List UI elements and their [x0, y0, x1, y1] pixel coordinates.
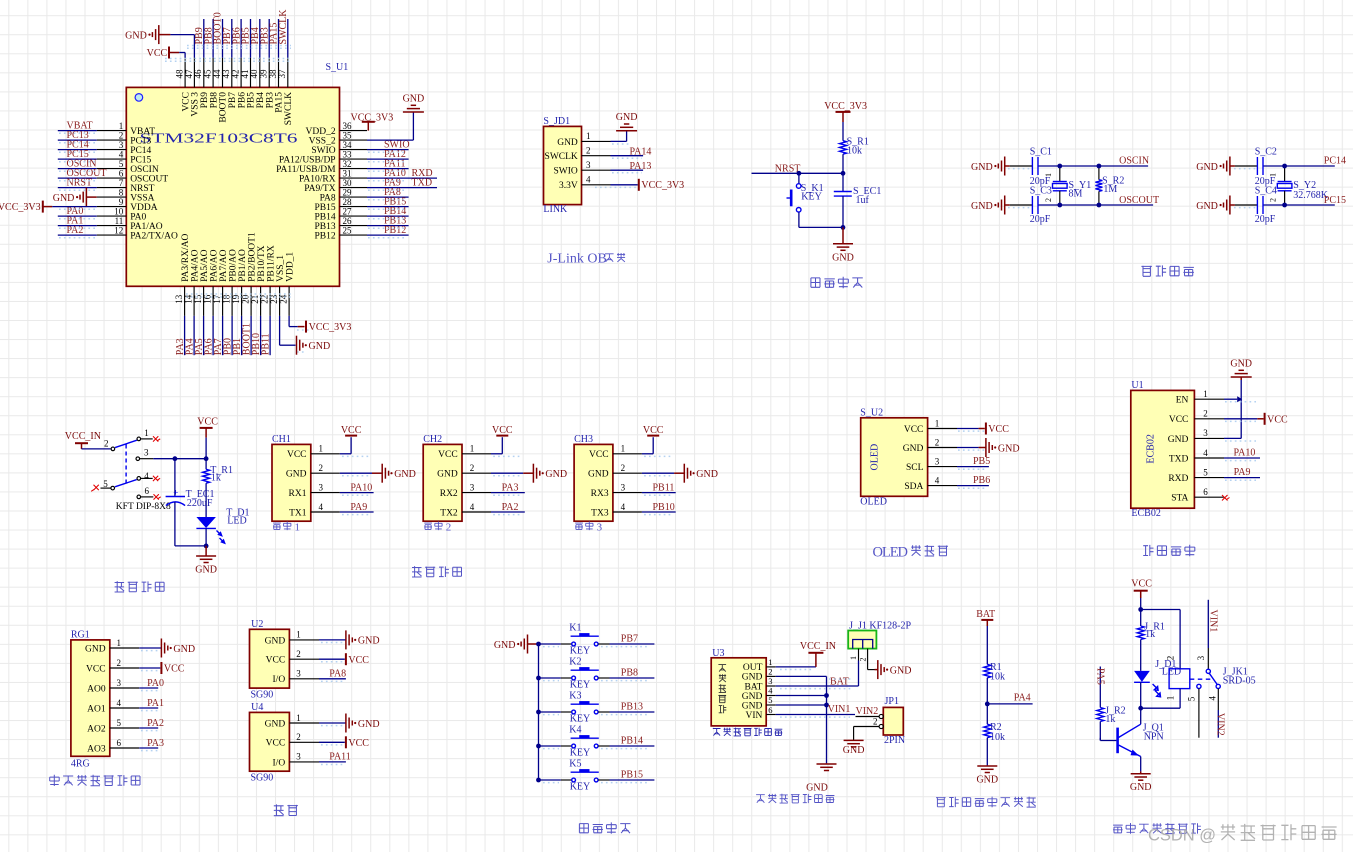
svg-text:4: 4 [470, 502, 475, 512]
svg-text:PA2: PA2 [147, 718, 164, 729]
svg-text:21: 21 [250, 295, 260, 304]
svg-text:1: 1 [119, 121, 124, 131]
svg-text:U2: U2 [251, 619, 263, 630]
svg-text:1k: 1k [1105, 714, 1115, 725]
svg-text:VCC: VCC [643, 425, 664, 436]
svg-text:TXD: TXD [412, 178, 433, 189]
svg-text:6: 6 [1203, 487, 1208, 497]
svg-text:3: 3 [296, 752, 301, 762]
svg-text:GND: GND [696, 469, 718, 480]
svg-text:24: 24 [279, 294, 289, 304]
svg-text:OUT: OUT [743, 663, 763, 673]
svg-text:4: 4 [144, 471, 149, 481]
svg-text:OSCOUT: OSCOUT [1119, 195, 1159, 206]
svg-text:VCC: VCC [266, 739, 286, 749]
svg-text:3.3V: 3.3V [559, 181, 578, 191]
svg-text:2: 2 [1044, 198, 1053, 202]
svg-text:PA2: PA2 [67, 225, 84, 236]
svg-text:GND: GND [358, 719, 380, 730]
svg-text:PB11: PB11 [260, 333, 271, 355]
svg-text:9: 9 [119, 197, 124, 207]
svg-text:VIN2: VIN2 [856, 706, 879, 717]
svg-text:GND: GND [265, 636, 286, 646]
svg-text:1: 1 [1269, 173, 1278, 177]
svg-text:U4: U4 [251, 702, 263, 713]
svg-text:VIN1: VIN1 [828, 704, 851, 715]
svg-text:STA: STA [1171, 494, 1188, 504]
svg-text:PB11: PB11 [653, 482, 675, 493]
svg-text:12: 12 [114, 226, 123, 236]
svg-text:JP1: JP1 [885, 696, 899, 707]
svg-text:SWIO: SWIO [554, 167, 578, 177]
svg-text:VCC_3V3: VCC_3V3 [351, 112, 394, 123]
svg-text:K2: K2 [569, 656, 581, 667]
svg-text:32: 32 [343, 159, 352, 169]
svg-text:VCC: VCC [1267, 414, 1288, 425]
svg-text:VCC_IN: VCC_IN [800, 641, 836, 652]
svg-text:K1: K1 [569, 622, 581, 633]
svg-text:PB12: PB12 [384, 225, 406, 236]
svg-text:PA4/AO: PA4/AO [190, 249, 200, 282]
svg-text:CH1: CH1 [272, 434, 291, 445]
svg-text:3: 3 [144, 448, 149, 458]
svg-text:GND: GND [545, 469, 567, 480]
svg-text:PB10: PB10 [653, 502, 675, 513]
svg-text:OSCOUT: OSCOUT [130, 175, 168, 185]
svg-text:11: 11 [115, 216, 124, 226]
svg-text:PA1/AO: PA1/AO [130, 222, 163, 232]
svg-text:SWIO: SWIO [311, 146, 335, 156]
svg-text:2PIN: 2PIN [884, 735, 905, 746]
svg-text:SCL: SCL [906, 463, 924, 473]
svg-text:PA0: PA0 [130, 213, 146, 223]
svg-text:ECB02: ECB02 [1131, 508, 1160, 519]
svg-text:PA14: PA14 [630, 146, 652, 157]
svg-text:PA8: PA8 [320, 194, 336, 204]
svg-text:1: 1 [1044, 173, 1053, 177]
svg-text:2: 2 [1203, 409, 1208, 419]
svg-text:16: 16 [203, 294, 213, 304]
svg-text:4: 4 [586, 175, 591, 185]
svg-text:S_U1: S_U1 [326, 62, 349, 73]
svg-text:+: + [173, 488, 178, 498]
svg-text:PA2/TX/AO: PA2/TX/AO [130, 232, 178, 242]
svg-text:1k: 1k [1145, 629, 1155, 640]
svg-text:GND: GND [890, 665, 912, 676]
svg-text:25: 25 [343, 226, 353, 236]
svg-text:19: 19 [231, 294, 241, 304]
svg-text:VCC: VCC [988, 424, 1009, 435]
svg-text:4: 4 [1203, 448, 1208, 458]
svg-text:10k: 10k [990, 732, 1005, 743]
svg-text:1k: 1k [211, 472, 221, 483]
svg-text:5: 5 [768, 695, 772, 705]
svg-text:VSS_1: VSS_1 [276, 255, 286, 282]
svg-text:GND: GND [394, 469, 416, 480]
svg-text:3: 3 [935, 456, 940, 466]
svg-text:20: 20 [241, 294, 251, 304]
svg-text:VCC: VCC [197, 417, 218, 428]
svg-text:8M: 8M [1069, 189, 1083, 200]
svg-text:5: 5 [1186, 696, 1196, 701]
svg-text:5: 5 [119, 159, 124, 169]
svg-text:2: 2 [319, 463, 324, 473]
svg-text:1: 1 [935, 418, 940, 428]
svg-text:17: 17 [212, 294, 222, 304]
svg-text:GND: GND [1230, 359, 1252, 370]
svg-text:PA13: PA13 [630, 161, 652, 172]
svg-text:2: 2 [586, 146, 591, 156]
svg-text:1: 1 [621, 444, 626, 454]
svg-text:GND: GND [403, 94, 425, 105]
svg-text:GND: GND [494, 640, 516, 651]
svg-text:VCC: VCC [904, 425, 924, 435]
svg-text:VCC: VCC [86, 664, 106, 674]
svg-text:1: 1 [117, 638, 122, 648]
svg-text:PC14: PC14 [130, 146, 151, 156]
svg-text:1: 1 [296, 630, 301, 640]
svg-text:VCC: VCC [438, 450, 458, 460]
svg-text:VIN: VIN [746, 711, 763, 721]
svg-text:VCC: VCC [589, 450, 609, 460]
svg-text:OSCIN: OSCIN [130, 165, 159, 175]
svg-text:3: 3 [470, 482, 475, 492]
svg-text:PA10/RX: PA10/RX [299, 175, 336, 185]
svg-text:VDD_2: VDD_2 [306, 127, 336, 137]
svg-text:22: 22 [260, 295, 270, 304]
svg-text:2: 2 [873, 717, 878, 727]
svg-text:OLED: OLED [873, 545, 909, 561]
svg-text:1: 1 [768, 657, 772, 667]
svg-text:VBAT: VBAT [130, 127, 155, 137]
svg-text:RX2: RX2 [440, 489, 458, 499]
svg-text:35: 35 [343, 131, 353, 141]
svg-text:VCC: VCC [348, 655, 369, 666]
svg-text:TX1: TX1 [289, 508, 307, 518]
svg-text:NRST: NRST [130, 184, 154, 194]
svg-text:4: 4 [119, 150, 124, 160]
svg-text:LINK: LINK [543, 204, 568, 215]
svg-text:23: 23 [269, 294, 279, 304]
svg-text:S_C1: S_C1 [1030, 147, 1052, 158]
svg-text:GND: GND [1196, 162, 1218, 173]
svg-text:3: 3 [621, 482, 626, 492]
svg-text:20pF: 20pF [1030, 214, 1051, 225]
svg-text:PB5: PB5 [973, 456, 990, 467]
svg-text:VDDA: VDDA [130, 203, 158, 213]
svg-text:TX2: TX2 [440, 508, 458, 518]
svg-text:PA12/USB/DP: PA12/USB/DP [279, 156, 336, 166]
svg-text:CSDN @: CSDN @ [1148, 827, 1216, 845]
svg-text:VCC: VCC [147, 48, 168, 59]
svg-text:6: 6 [119, 169, 124, 179]
svg-text:GND: GND [742, 701, 763, 711]
svg-text:4: 4 [117, 698, 122, 708]
svg-text:2: 2 [621, 463, 626, 473]
svg-text:GND: GND [843, 745, 865, 756]
svg-text:GND: GND [53, 193, 75, 204]
svg-text:4: 4 [1208, 696, 1218, 701]
svg-text:1: 1 [849, 656, 858, 660]
svg-text:PC15: PC15 [130, 156, 151, 166]
svg-text:GND: GND [742, 673, 763, 683]
svg-text:SG90: SG90 [251, 773, 274, 784]
svg-text:GND: GND [286, 470, 307, 480]
svg-text:S_C3: S_C3 [1030, 185, 1052, 196]
svg-text:K3: K3 [569, 690, 581, 701]
svg-text:GND: GND [557, 138, 578, 148]
svg-text:2: 2 [1269, 198, 1278, 202]
svg-text:VCC: VCC [1131, 579, 1152, 590]
svg-text:2: 2 [296, 649, 301, 659]
svg-text:5: 5 [1203, 467, 1208, 477]
svg-text:BAT: BAT [830, 676, 849, 687]
svg-text:3: 3 [1196, 655, 1206, 660]
svg-text:PB1/AO: PB1/AO [238, 249, 248, 282]
svg-text:U1: U1 [1131, 380, 1143, 391]
svg-text:GND: GND [588, 470, 609, 480]
svg-text:PB14: PB14 [314, 213, 335, 223]
svg-text:PA5: PA5 [1095, 668, 1106, 685]
svg-text:RG1: RG1 [71, 630, 90, 641]
svg-text:PB14: PB14 [621, 736, 643, 747]
svg-text:SWCLK: SWCLK [545, 152, 578, 162]
svg-text:VCC: VCC [287, 450, 307, 460]
svg-text:PC15: PC15 [1324, 195, 1346, 206]
svg-text:2: 2 [119, 131, 124, 141]
svg-text:PB15: PB15 [621, 770, 643, 781]
svg-text:VIN2: VIN2 [1215, 713, 1226, 736]
svg-text:KEY: KEY [570, 679, 591, 690]
svg-text:4: 4 [768, 686, 773, 696]
svg-text:J-Link OB: J-Link OB [547, 252, 607, 267]
svg-text:PA6/AO: PA6/AO [209, 249, 219, 282]
svg-text:PA5/AO: PA5/AO [200, 249, 210, 282]
svg-text:3: 3 [117, 678, 122, 688]
svg-text:PA9/TX: PA9/TX [304, 184, 335, 194]
svg-text:GND: GND [976, 775, 998, 786]
svg-text:PB13: PB13 [314, 222, 335, 232]
svg-text:S_C2: S_C2 [1255, 147, 1277, 158]
svg-text:VCC_3V3: VCC_3V3 [0, 202, 41, 213]
svg-text:STM32F103C8T6: STM32F103C8T6 [140, 131, 298, 146]
svg-text:3: 3 [296, 669, 301, 679]
svg-text:5: 5 [117, 718, 122, 728]
svg-text:KEY: KEY [570, 713, 591, 724]
svg-text:2: 2 [1166, 656, 1176, 661]
svg-text:1uf: 1uf [856, 195, 870, 206]
svg-text:GND: GND [1168, 435, 1189, 445]
svg-text:PA9: PA9 [1234, 467, 1251, 478]
svg-text:CH2: CH2 [423, 434, 442, 445]
svg-text:PB6: PB6 [973, 475, 990, 486]
svg-text:VCC: VCC [341, 425, 362, 436]
svg-text:31: 31 [343, 169, 352, 179]
svg-text:KEY: KEY [570, 747, 591, 758]
svg-text:10k: 10k [990, 672, 1005, 683]
svg-text:4: 4 [319, 502, 324, 512]
svg-text:3: 3 [319, 482, 324, 492]
svg-text:VCC: VCC [164, 664, 185, 675]
svg-text:PA11: PA11 [329, 752, 351, 763]
svg-text:8: 8 [119, 188, 124, 198]
svg-text:K4: K4 [569, 724, 581, 735]
svg-text:18: 18 [222, 294, 232, 304]
svg-text:AO1: AO1 [87, 704, 106, 714]
svg-text:220uF: 220uF [187, 498, 213, 509]
svg-text:6: 6 [768, 705, 772, 715]
svg-text:TX3: TX3 [591, 508, 609, 518]
svg-text:PA3: PA3 [147, 738, 164, 749]
svg-text:GND: GND [806, 783, 828, 794]
svg-text:2: 2 [296, 732, 301, 742]
svg-text:15: 15 [193, 294, 203, 304]
svg-text:GND: GND [742, 692, 763, 702]
svg-text:KEY: KEY [801, 192, 822, 203]
svg-text:29: 29 [343, 188, 353, 198]
svg-text:3: 3 [768, 676, 772, 686]
svg-text:6: 6 [117, 738, 122, 748]
svg-text:4: 4 [935, 475, 940, 485]
svg-text:KEY: KEY [570, 645, 591, 656]
svg-text:2: 2 [104, 438, 109, 448]
svg-text:10k: 10k [847, 146, 862, 157]
svg-text:U3: U3 [712, 648, 724, 659]
svg-text:GND: GND [265, 719, 286, 729]
svg-text:PA4: PA4 [1014, 693, 1031, 704]
svg-text:PA9: PA9 [350, 502, 367, 513]
svg-text:VSS_2: VSS_2 [309, 137, 336, 147]
svg-text:AO0: AO0 [87, 684, 106, 694]
svg-text:3: 3 [597, 521, 603, 533]
svg-text:GND: GND [1130, 782, 1152, 793]
svg-text:PA7/AO: PA7/AO [219, 249, 229, 282]
svg-text:VSSA: VSSA [130, 194, 154, 204]
svg-text:VCC: VCC [266, 656, 286, 666]
svg-text:PB2/BOOT1: PB2/BOOT1 [247, 232, 257, 282]
svg-text:10: 10 [114, 207, 124, 217]
svg-text:OLED: OLED [860, 497, 887, 508]
svg-text:PA3/RX/AO: PA3/RX/AO [181, 234, 191, 282]
svg-text:PA0: PA0 [147, 678, 164, 689]
svg-text:VCC_3V3: VCC_3V3 [641, 180, 684, 191]
svg-text:ECB02: ECB02 [1146, 434, 1157, 463]
svg-text:I/O: I/O [273, 675, 286, 685]
svg-text:PB12: PB12 [314, 232, 335, 242]
svg-text:PA10: PA10 [350, 482, 372, 493]
svg-text:PA11/USB/DM: PA11/USB/DM [276, 165, 336, 175]
svg-text:S_JD1: S_JD1 [543, 116, 570, 127]
svg-text:GND: GND [309, 341, 331, 352]
svg-text:PB8: PB8 [621, 668, 638, 679]
svg-text:2: 2 [117, 658, 122, 668]
svg-text:2: 2 [935, 437, 940, 447]
svg-text:37: 37 [277, 69, 287, 79]
svg-text:PA8: PA8 [329, 668, 346, 679]
svg-text:NRST: NRST [67, 178, 93, 189]
svg-text:SRD-05: SRD-05 [1223, 676, 1256, 687]
svg-text:2: 2 [859, 658, 868, 662]
svg-text:33: 33 [343, 150, 353, 160]
svg-text:RXD: RXD [1168, 474, 1188, 484]
svg-text:3: 3 [119, 140, 124, 150]
svg-text:PB15: PB15 [314, 203, 335, 213]
svg-text:VIN1: VIN1 [1208, 610, 1219, 633]
svg-text:GND: GND [195, 565, 217, 576]
svg-text:PC14: PC14 [1324, 155, 1346, 166]
svg-text:CH3: CH3 [574, 434, 593, 445]
svg-text:GND: GND [1196, 201, 1218, 212]
svg-text:1: 1 [295, 521, 301, 533]
svg-text:1: 1 [144, 428, 149, 438]
svg-text:SG90: SG90 [251, 689, 274, 700]
svg-text:27: 27 [343, 207, 353, 217]
svg-text:1: 1 [586, 131, 591, 141]
svg-text:NRST: NRST [775, 164, 801, 175]
svg-text:3: 3 [586, 160, 591, 170]
svg-text:SDA: SDA [904, 482, 923, 492]
svg-text:PB0/AO: PB0/AO [228, 249, 238, 282]
svg-text:2: 2 [470, 463, 475, 473]
svg-text:VCC_3V3: VCC_3V3 [309, 322, 352, 333]
svg-text:34: 34 [343, 140, 353, 150]
svg-text:GND: GND [358, 636, 380, 647]
svg-text:26: 26 [343, 216, 353, 226]
svg-text:VCC: VCC [348, 738, 369, 749]
svg-text:VCC: VCC [492, 425, 513, 436]
svg-text:1: 1 [470, 444, 475, 454]
svg-text:KFT DIP-8X8: KFT DIP-8X8 [116, 502, 171, 512]
svg-text:AO3: AO3 [87, 744, 106, 754]
svg-text:PA1: PA1 [147, 698, 164, 709]
svg-text:VCC_IN: VCC_IN [65, 431, 101, 442]
svg-text:28: 28 [343, 197, 353, 207]
svg-text:BAT: BAT [976, 609, 995, 620]
svg-text:4: 4 [621, 502, 626, 512]
svg-text:4RG: 4RG [71, 758, 90, 769]
svg-text:5: 5 [103, 479, 108, 489]
svg-text:S_U2: S_U2 [860, 408, 883, 419]
svg-text:VCC_3V3: VCC_3V3 [824, 101, 867, 112]
svg-text:GND: GND [125, 30, 147, 41]
svg-text:1M: 1M [1103, 184, 1117, 195]
svg-text:PA10: PA10 [1234, 447, 1256, 458]
svg-text:14: 14 [184, 294, 194, 304]
svg-text:OLED: OLED [870, 444, 881, 471]
svg-text:30: 30 [343, 178, 353, 188]
svg-text:GND: GND [85, 644, 106, 654]
svg-text:TXD: TXD [1169, 454, 1189, 464]
svg-text:PB11/RX: PB11/RX [266, 245, 276, 282]
svg-text:EN: EN [1176, 396, 1189, 406]
svg-text:20pF: 20pF [1255, 214, 1276, 225]
svg-text:PB7: PB7 [621, 634, 638, 645]
svg-text:6: 6 [145, 486, 150, 496]
svg-text:7: 7 [119, 178, 124, 188]
svg-text:OSCIN: OSCIN [1119, 155, 1149, 166]
svg-text:VCC: VCC [1169, 415, 1189, 425]
svg-text:SWCLK: SWCLK [284, 92, 294, 125]
svg-text:GND: GND [173, 644, 195, 655]
svg-text:PB10/TX: PB10/TX [257, 245, 267, 282]
svg-text:GND: GND [971, 162, 993, 173]
svg-text:SWCLK: SWCLK [278, 9, 289, 45]
svg-text:PB13: PB13 [621, 702, 643, 713]
svg-text:3: 3 [1203, 428, 1208, 438]
svg-text:1: 1 [1166, 696, 1176, 701]
svg-text:GND: GND [437, 470, 458, 480]
svg-text:RX1: RX1 [289, 489, 307, 499]
